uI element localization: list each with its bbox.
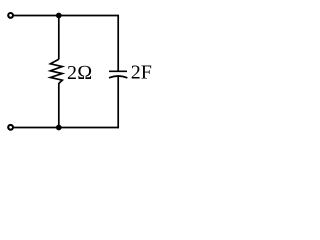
svg-text:2F: 2F bbox=[131, 62, 152, 84]
resistor R (2 ohm) zigzag bbox=[50, 59, 62, 83]
wire (resistor branch, lower lead) bbox=[58, 83, 60, 127]
terminal (top-left, open circle) bbox=[8, 13, 13, 18]
svg-text:2Ω: 2Ω bbox=[67, 62, 92, 84]
node (top junction dot) bbox=[56, 13, 62, 19]
wire (top horizontal) bbox=[13, 15, 118, 17]
node (bottom junction dot) bbox=[56, 125, 62, 131]
wire (right vertical, lower segment from capacitor) bbox=[117, 76, 119, 128]
terminal (bottom-left, open circle) bbox=[8, 125, 13, 130]
wire (right vertical, upper segment to capacitor) bbox=[117, 15, 119, 72]
capacitor C (2F) bottom curved plate bbox=[109, 76, 127, 78]
wire (resistor branch, upper lead) bbox=[58, 16, 60, 60]
capacitor C (2F) top plate bbox=[109, 70, 127, 72]
wire (bottom horizontal) bbox=[13, 127, 119, 129]
